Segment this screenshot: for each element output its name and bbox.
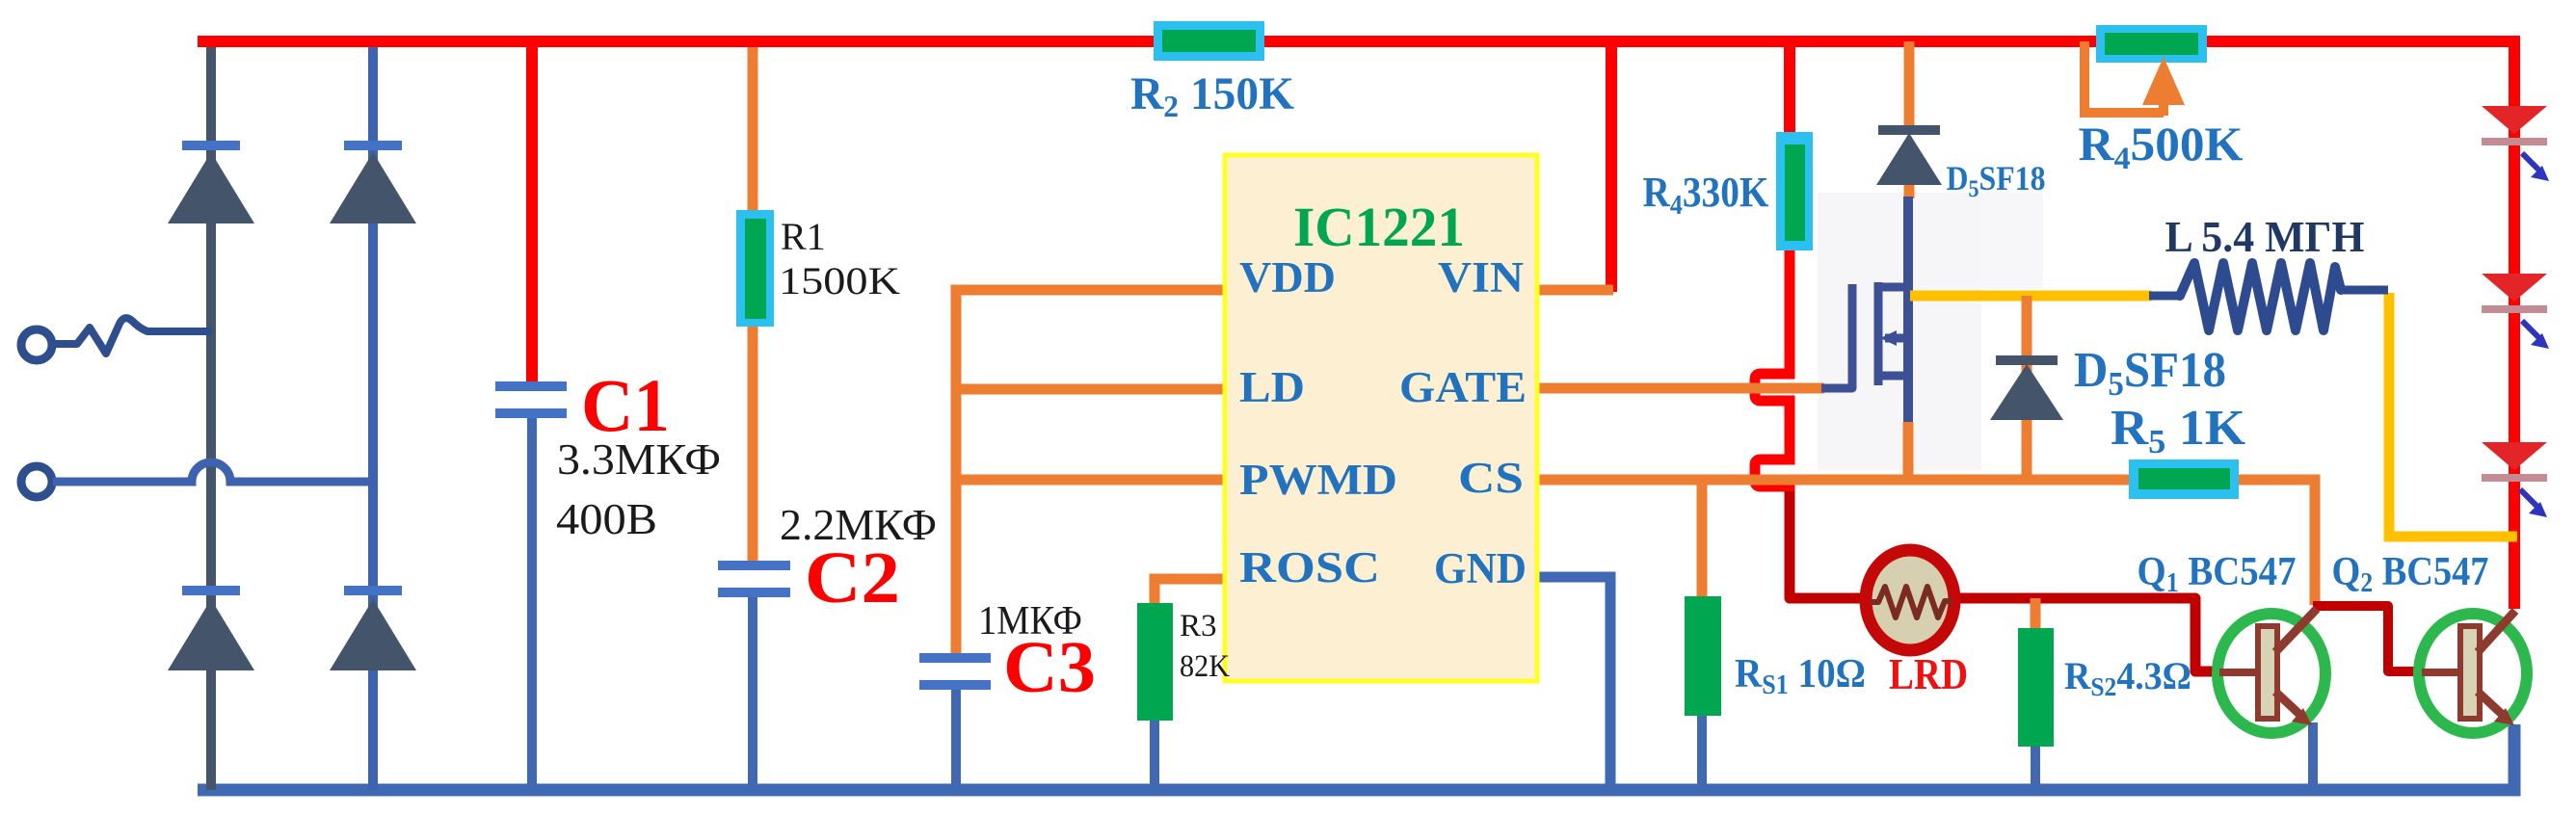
svg-text:1500K: 1500K bbox=[779, 259, 900, 302]
svg-text:400В: 400В bbox=[556, 494, 657, 543]
svg-text:ROSC: ROSC bbox=[1239, 543, 1380, 591]
svg-text:LD: LD bbox=[1239, 363, 1305, 411]
svg-text:RS24.3Ω: RS24.3Ω bbox=[2064, 654, 2191, 701]
svg-text:LRD: LRD bbox=[1889, 649, 1968, 698]
svg-text:C3: C3 bbox=[1003, 627, 1096, 708]
svg-text:D5SF18: D5SF18 bbox=[1947, 159, 2046, 202]
svg-text:3.3МКФ: 3.3МКФ bbox=[557, 434, 721, 484]
svg-text:L 5.4 МГН: L 5.4 МГН bbox=[2165, 212, 2365, 261]
svg-text:PWMD: PWMD bbox=[1239, 456, 1397, 504]
svg-text:VDD: VDD bbox=[1239, 253, 1336, 302]
svg-text:GATE: GATE bbox=[1399, 363, 1527, 411]
svg-text:R5 1K: R5 1K bbox=[2111, 401, 2246, 460]
svg-text:RS1 10Ω: RS1 10Ω bbox=[1735, 652, 1866, 700]
svg-text:R2 150K: R2 150K bbox=[1130, 68, 1294, 123]
svg-text:GND: GND bbox=[1434, 544, 1527, 592]
svg-text:C2: C2 bbox=[805, 538, 900, 618]
svg-text:Q1 BC547: Q1 BC547 bbox=[2138, 550, 2297, 598]
svg-text:R3: R3 bbox=[1180, 609, 1217, 643]
svg-text:IC1221: IC1221 bbox=[1293, 196, 1465, 258]
svg-text:R4330K: R4330K bbox=[1643, 169, 1769, 221]
svg-text:R4500K: R4500K bbox=[2079, 117, 2244, 176]
svg-text:R1: R1 bbox=[781, 215, 826, 258]
svg-text:CS: CS bbox=[1458, 454, 1524, 502]
svg-text:Q2 BC547: Q2 BC547 bbox=[2332, 550, 2489, 598]
svg-text:82K: 82K bbox=[1180, 649, 1230, 684]
svg-text:D5SF18: D5SF18 bbox=[2074, 343, 2226, 403]
svg-text:VIN: VIN bbox=[1438, 253, 1524, 302]
